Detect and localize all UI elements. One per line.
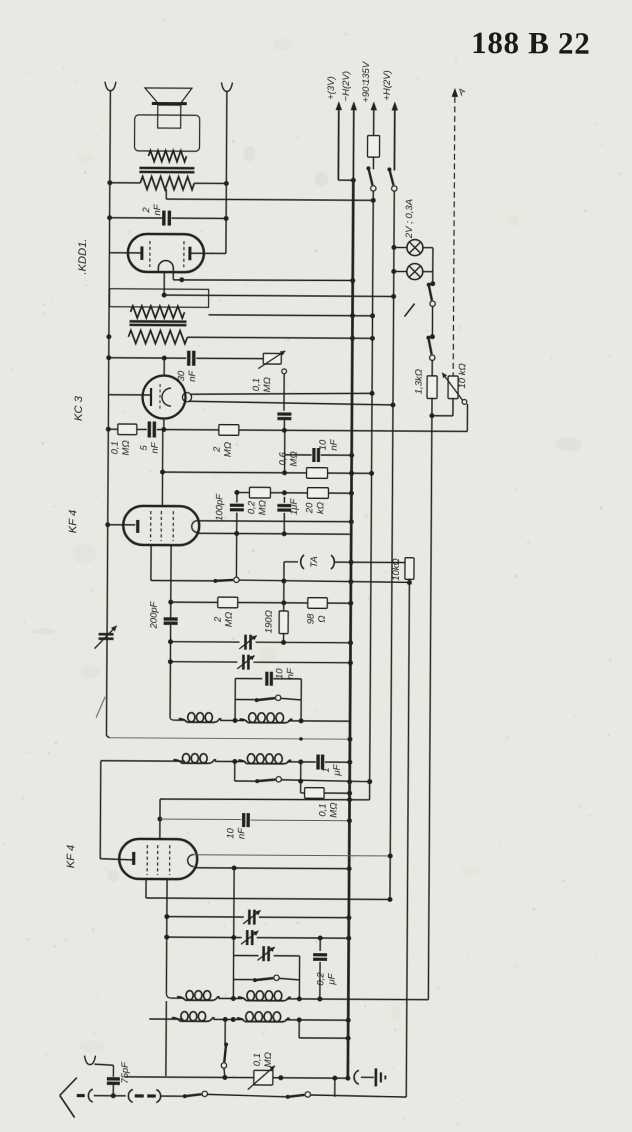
svg-text:KF 4: KF 4 (65, 845, 77, 869)
svg-text:+(3V): +(3V) (326, 76, 337, 100)
svg-text:10: 10 (318, 439, 329, 450)
svg-text:nF: nF (328, 438, 339, 450)
svg-text:MΩ: MΩ (120, 440, 131, 455)
svg-text:75pF: 75pF (120, 1061, 131, 1084)
svg-text:MΩ: MΩ (288, 451, 299, 466)
svg-text:Ω: Ω (316, 615, 327, 622)
svg-text:MΩ: MΩ (262, 377, 273, 392)
svg-text:KC 3: KC 3 (73, 395, 85, 421)
svg-text:nF: nF (152, 203, 163, 215)
svg-text:2: 2 (213, 616, 224, 623)
svg-text:μF: μF (332, 763, 343, 776)
svg-text:MΩ: MΩ (257, 500, 268, 515)
svg-text:1: 1 (321, 767, 332, 772)
svg-text:2V ; 0,3A: 2V ; 0,3A (404, 199, 415, 239)
svg-text:nF: nF (285, 667, 296, 679)
svg-text:kΩ: kΩ (315, 502, 326, 514)
svg-text:TA: TA (309, 556, 320, 568)
svg-text:10kΩ: 10kΩ (391, 558, 402, 581)
svg-text:−H(2V): −H(2V) (341, 71, 352, 101)
svg-text:0,2: 0,2 (315, 972, 326, 986)
svg-text:MΩ: MΩ (223, 612, 234, 627)
svg-text:1,3kΩ: 1,3kΩ (414, 369, 425, 394)
svg-text:MΩ: MΩ (222, 442, 233, 457)
svg-text:MΩ: MΩ (328, 802, 339, 817)
svg-text:KF 4: KF 4 (67, 510, 79, 534)
svg-text:2: 2 (141, 207, 152, 214)
svg-text:98: 98 (306, 613, 317, 624)
svg-text:μF: μF (326, 972, 337, 985)
svg-text:10: 10 (225, 827, 236, 838)
svg-text:5: 5 (139, 445, 150, 451)
svg-text:10: 10 (274, 668, 285, 679)
svg-text:0,1: 0,1 (251, 378, 262, 391)
svg-text:190Ω: 190Ω (264, 610, 275, 633)
svg-text:+90∶135V: +90∶135V (361, 60, 372, 103)
svg-text:1μF: 1μF (289, 497, 300, 515)
svg-text:nF: nF (149, 441, 160, 453)
svg-text:0,1: 0,1 (252, 1053, 263, 1066)
svg-text:0,1: 0,1 (110, 441, 121, 454)
svg-text:20: 20 (304, 502, 315, 514)
svg-text:0,1: 0,1 (317, 803, 328, 816)
svg-text:.KDD1.: .KDD1. (77, 239, 89, 275)
svg-text:MΩ: MΩ (263, 1052, 274, 1067)
svg-text:200pF: 200pF (149, 600, 160, 629)
svg-text:0,2: 0,2 (246, 500, 257, 514)
svg-text:10 kΩ: 10 kΩ (457, 363, 468, 388)
svg-text:2: 2 (212, 446, 223, 453)
svg-text:nF: nF (236, 827, 247, 839)
svg-text:0,6: 0,6 (278, 451, 289, 465)
svg-text:+H(2V): +H(2V) (382, 70, 393, 100)
svg-text:nF: nF (187, 369, 198, 381)
svg-text:100pF: 100pF (214, 493, 225, 521)
